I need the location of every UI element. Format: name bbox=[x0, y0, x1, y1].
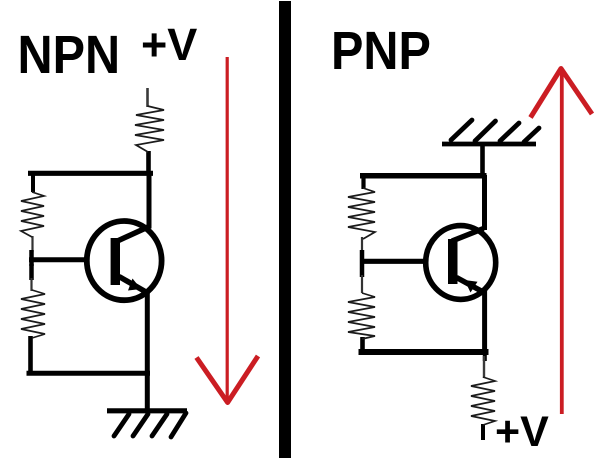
svg-text:NPN: NPN bbox=[18, 24, 121, 85]
svg-text:+V: +V bbox=[141, 19, 197, 70]
svg-text:+V: +V bbox=[495, 408, 549, 456]
svg-text:PNP: PNP bbox=[331, 20, 431, 81]
